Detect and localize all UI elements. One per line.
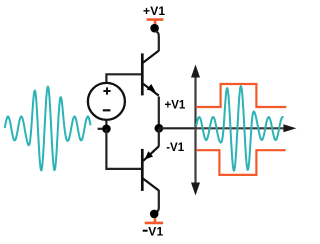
svg-text:+V1: +V1 [165,100,186,112]
wire: input stub from waveform [98,128,103,130]
node: -V1 terminal dot [150,210,159,219]
supply envelope lower (orange) [196,150,286,175]
wire: Q2 collector to -V1 dot [155,190,159,213]
wire: input node down to Q2 base [106,129,141,169]
svg-text:-V1: -V1 [166,142,185,154]
voltage source V2 (signal source) [88,83,125,120]
wire: source top to Q1 base [106,74,141,82]
supply envelope upper (orange) [196,84,286,107]
wire: output node to graph axis [159,127,196,129]
+V1 supply rail symbol [147,20,164,25]
transistor Q1 (NPN) [142,51,159,96]
wire: Q1 emitter to output node [158,97,160,128]
node: input junction dot [102,125,111,134]
-V1 supply label [143,230,148,232]
svg-text:V1: V1 [148,224,163,238]
output AM waveform [196,86,282,171]
transistor Q2 (PNP) [142,146,159,191]
node: +V1 terminal dot [150,24,159,33]
node: output junction dot [155,124,164,133]
svg-text:+V1: +V1 [143,4,165,18]
wire: +V1 dot to Q1 collector [156,31,159,51]
input AM waveform [5,87,91,171]
graph vertical axis [191,65,200,196]
wire: source bottom to input node [105,120,107,126]
wire: output node down to Q2 emitter [158,129,160,147]
graph horizontal axis [196,124,297,132]
-V1 supply rail symbol [145,218,163,223]
